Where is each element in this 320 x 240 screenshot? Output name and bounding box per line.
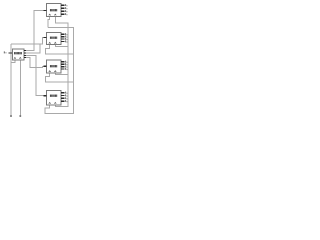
wire net: U0 out2 up to distribution row: [24, 44, 40, 53]
wire: clock bus B right vertical x=68.2: [55, 17, 68, 107]
U4 output label 3: [65, 100, 66, 102]
U3 output pin stubs: [61, 62, 64, 69]
wire net: left drop x=11 to bottom terminal: [10, 44, 12, 115]
terminal dot clock net 2: [19, 115, 21, 117]
U1 output label 1: [65, 7, 66, 9]
U2 clock mark a: [49, 42, 51, 43]
wire: U3 clock-b to bus B: [55, 73, 68, 75]
U4 output pin stubs: [61, 93, 64, 101]
wire net: U0 out4 to U3 input: [24, 58, 47, 68]
input pin stub U0: [9, 52, 13, 54]
U3 output label 2: [65, 66, 66, 68]
U2 clock mark b: [54, 42, 56, 43]
U4 output label 2: [65, 97, 66, 99]
U2 output label 3: [65, 40, 66, 42]
U4 output label 1: [65, 94, 66, 96]
wire net: U0 out3 to U4 input: [24, 56, 47, 96]
U1 clock mark a: [49, 14, 51, 15]
U1 output label 0: [65, 4, 66, 6]
U1 input pin stub: [44, 10, 47, 12]
U4 clock mark b: [54, 103, 56, 104]
U2 output label 1: [65, 36, 66, 38]
U2 output pin stubs: [61, 34, 64, 41]
U0 clock mark b: [19, 58, 21, 59]
U3 input pin stub: [44, 65, 47, 67]
U2 input pin stub: [44, 36, 47, 38]
U1 clock mark b: [54, 14, 56, 15]
U4 clock mark a: [49, 103, 51, 104]
wire: U2 clock-a to bus A: [46, 45, 74, 54]
U3 output label 1: [65, 63, 66, 65]
wire: U0 clock-a jog to left drop: [11, 60, 15, 63]
U1 output pin stubs: [61, 5, 64, 14]
chip U2 DEMUX: [47, 33, 62, 45]
U2 output label 0: [65, 33, 66, 35]
wire: U3 clock-a to bus A: [46, 73, 74, 82]
terminal dot clock net 1: [10, 115, 12, 117]
U0 clock mark a: [14, 58, 16, 59]
chip U3 DEMUX: [47, 60, 62, 73]
U3 clock mark b: [54, 71, 56, 72]
U1 output label 3: [65, 13, 66, 15]
U3 output label 0: [65, 61, 66, 63]
U4 input pin stub: [44, 95, 47, 97]
U1 output label 2: [65, 10, 66, 12]
U3 clock mark a: [49, 71, 51, 72]
chip U4 DEMUX: [47, 91, 62, 105]
U3 output label 3: [65, 68, 66, 70]
wire: clock bus A right vertical x=73.4: [45, 28, 73, 114]
U2 output label 2: [65, 38, 66, 40]
wire net: distribution row y=44 to U2 input: [11, 37, 47, 44]
wire: U1 clock-a jog to bus A: [48, 17, 50, 28]
U4 output label 0: [65, 92, 66, 94]
input net label: [4, 51, 5, 53]
chip U0 DEMUX (left): [12, 49, 23, 60]
wire: U2 clock-b to bus B: [55, 45, 68, 47]
wire net: U0 out1 to U1 input: [24, 11, 47, 51]
chip U1 DEMUX: [47, 4, 62, 17]
U0 output pin stubs: [24, 51, 26, 58]
wire: U0 clock-b down to bottom terminal: [19, 60, 21, 115]
